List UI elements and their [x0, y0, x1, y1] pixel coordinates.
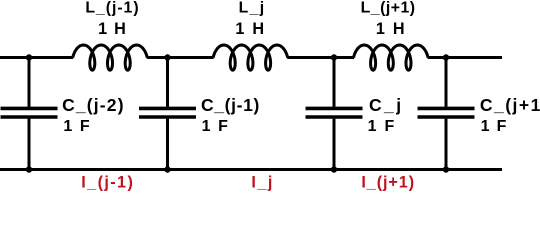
- node junction dot bottom 4: [443, 166, 449, 172]
- wire: capacitor C3 bottom lead: [333, 119, 336, 170]
- capacitor C2 plates: [139, 108, 196, 117]
- svg-text:I_(j+1): I_(j+1): [361, 174, 414, 192]
- inductor L1 coil: [73, 45, 148, 70]
- svg-text:1 H: 1 H: [376, 20, 405, 38]
- svg-text:I_j: I_j: [251, 174, 272, 192]
- node junction dot bottom 3: [331, 166, 337, 172]
- circuit: LC ladder network (discrete transmission line): [0, 0, 540, 192]
- svg-text:L_j: L_j: [239, 0, 264, 17]
- wire: capacitor C4 top lead: [445, 58, 448, 107]
- svg-text:C_(j+1): C_(j+1): [480, 95, 540, 115]
- inductor L3 coil: [354, 45, 429, 70]
- node junction dot top 1: [26, 54, 32, 60]
- wire: top rail segment 2: [147, 56, 214, 59]
- node junction dot top 4: [443, 54, 449, 60]
- svg-text:C_(j-2): C_(j-2): [62, 95, 123, 115]
- wire: capacitor C4 bottom lead: [445, 119, 448, 170]
- svg-text:1 F: 1 F: [63, 118, 90, 135]
- wire: top rail segment 3: [287, 56, 354, 59]
- wire: capacitor C1 bottom lead: [28, 119, 31, 170]
- wire: top rail segment 1: [0, 56, 73, 59]
- wire: capacitor C3 top lead: [333, 58, 336, 107]
- wire: top rail segment 4: [428, 56, 502, 59]
- svg-text:1 H: 1 H: [235, 20, 264, 38]
- node junction dot top 3: [331, 54, 337, 60]
- wire: capacitor C2 bottom lead: [166, 119, 169, 170]
- wire: capacitor C2 top lead: [166, 58, 169, 107]
- svg-text:1 F: 1 F: [202, 118, 229, 135]
- node junction dot bottom 1: [26, 166, 32, 172]
- wire: bottom rail: [0, 168, 502, 171]
- wire: capacitor C1 top lead: [28, 58, 31, 107]
- svg-text:L_(j-1): L_(j-1): [85, 0, 138, 17]
- capacitor C3 plates: [306, 108, 363, 117]
- svg-text:1 F: 1 F: [368, 118, 395, 135]
- svg-text:C_j: C_j: [369, 95, 401, 115]
- node junction dot top 2: [164, 54, 170, 60]
- inductor L2 coil: [213, 45, 288, 70]
- svg-text:I_(j-1): I_(j-1): [81, 174, 133, 192]
- svg-text:L_(j+1): L_(j+1): [361, 0, 415, 17]
- svg-text:1 F: 1 F: [481, 118, 507, 135]
- capacitor C4 plates: [418, 108, 475, 117]
- svg-text:1 H: 1 H: [98, 20, 126, 38]
- node junction dot bottom 2: [164, 166, 170, 172]
- svg-text:C_(j-1): C_(j-1): [201, 95, 259, 115]
- capacitor C1 plates: [1, 108, 58, 117]
